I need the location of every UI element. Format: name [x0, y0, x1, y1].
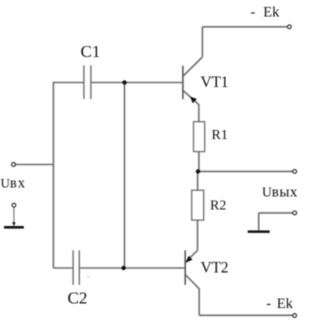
wire Uvyh down to ground	[258, 213, 260, 230]
terminal bottom -Ek	[293, 314, 297, 318]
wire top -Ek	[202, 26, 287, 28]
transistor VT2 base bar	[184, 250, 186, 285]
wire VT1 emitter diagonal	[183, 90, 199, 104]
transistor VT2 emitter arrow	[186, 256, 193, 263]
input ground arrowhead	[12, 222, 15, 226]
wire C1 left	[53, 82, 83, 84]
transistor VT1 base bar	[182, 66, 184, 100]
wire VT2 emitter diagonal	[185, 250, 197, 262]
wire input ground stem	[13, 207, 15, 224]
svg-text:-: -	[251, 5, 256, 21]
svg-text:C2: C2	[68, 289, 88, 308]
wire node to R2 top	[197, 171, 199, 190]
wire R2 bottom to VT2 emitter	[197, 220, 199, 250]
svg-text:Ek: Ek	[277, 296, 294, 312]
wire R1 bottom to node	[198, 152, 200, 172]
wire bottom -Ek	[199, 314, 293, 316]
junction node at C1	[122, 80, 126, 84]
wire VT1 collector vertical	[201, 27, 203, 57]
speck artifact near C2	[87, 276, 88, 277]
wire Uvyh horizontal	[259, 212, 293, 214]
terminal top -Ek	[288, 25, 292, 29]
wire VT2 collector diagonal	[185, 275, 199, 289]
wire left bus	[52, 82, 54, 268]
wire VT1 collector diagonal	[183, 57, 203, 76]
terminal input ground	[12, 203, 16, 207]
svg-text:R2: R2	[210, 199, 226, 214]
capacitor C2 plates	[73, 250, 79, 285]
wire output	[198, 170, 293, 172]
svg-text:C1: C1	[81, 42, 101, 61]
resistor R1 body	[194, 122, 205, 152]
svg-text:-: -	[266, 296, 271, 312]
wire C2 left	[53, 267, 72, 269]
output ground bar	[248, 230, 270, 233]
wire middle bus	[124, 83, 126, 269]
capacitor C1 plates	[84, 65, 91, 99]
terminal input Uvx	[12, 163, 16, 167]
resistor R2 body	[192, 190, 204, 220]
wire VT1 emitter to R1	[198, 104, 200, 122]
wire VT2 collector vertical	[198, 288, 200, 315]
transistor VT1 emitter arrow	[190, 97, 197, 104]
junction node at C2	[121, 266, 125, 270]
svg-text:Uвых: Uвых	[262, 185, 298, 201]
wire C1 right to VT1 base	[91, 82, 182, 84]
wire C2 right to VT2 base	[80, 267, 185, 269]
terminal Uvyh ground	[293, 211, 297, 215]
junction node between R1 and R2	[196, 169, 200, 173]
svg-text:R1: R1	[212, 128, 228, 143]
svg-text:VT1: VT1	[201, 74, 229, 91]
svg-text:VT2: VT2	[201, 259, 229, 276]
svg-text:Ek: Ek	[263, 5, 280, 21]
input ground bar	[4, 226, 24, 229]
terminal output	[293, 170, 297, 174]
svg-text:Uвх: Uвх	[1, 176, 27, 192]
wire input	[15, 164, 53, 166]
